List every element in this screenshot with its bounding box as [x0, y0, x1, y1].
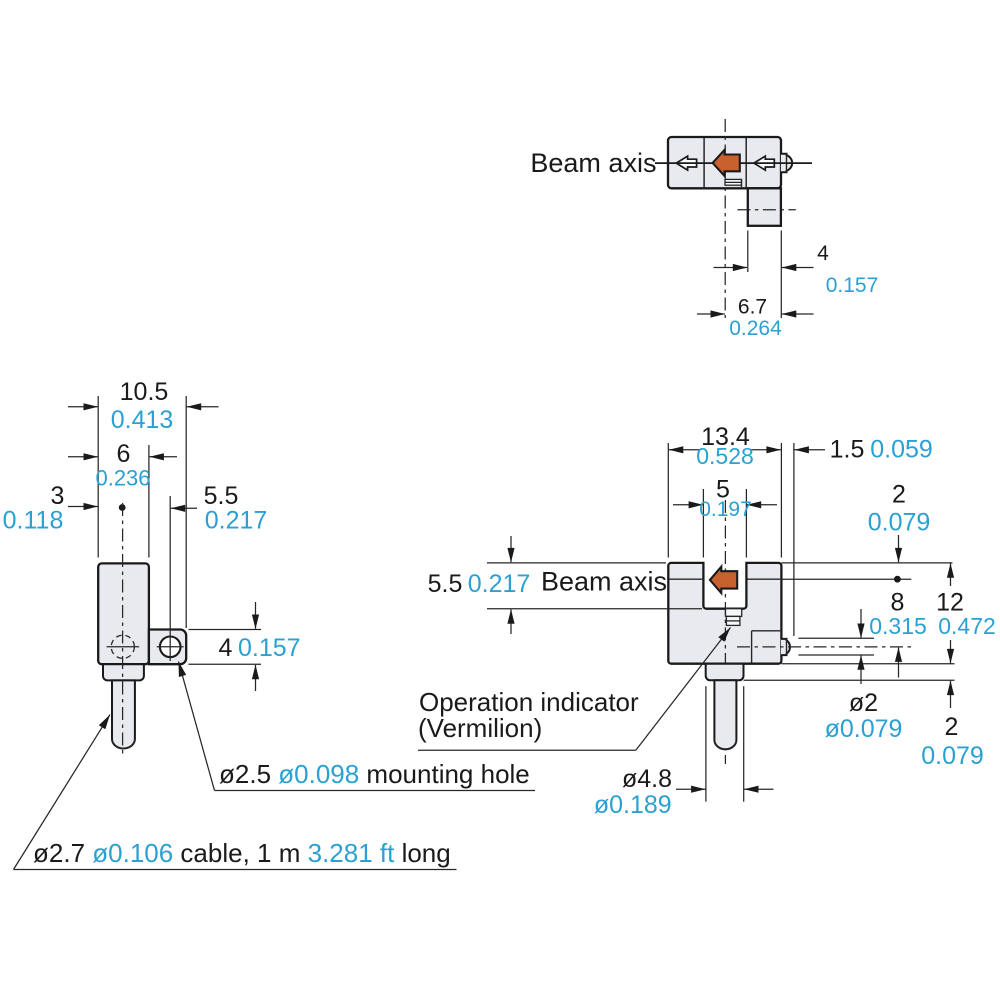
- front view: dimension 2 (0.079) bottom right step: [950, 681, 952, 708]
- front view: notch bottom line extended left: [487, 608, 702, 610]
- leader: cable label: [14, 715, 111, 870]
- svg-text:0.079: 0.079: [921, 742, 984, 770]
- svg-text:0.217: 0.217: [468, 570, 531, 598]
- front view: cable bushing: [706, 664, 744, 681]
- top view: orange beam direction arrow: [713, 150, 740, 176]
- svg-text:10.5: 10.5: [120, 378, 169, 406]
- svg-text:0.315: 0.315: [869, 613, 927, 639]
- svg-text:2: 2: [945, 713, 959, 741]
- svg-text:ø0.189: ø0.189: [594, 791, 672, 819]
- left view: dimension 6 (0.236): [68, 456, 98, 458]
- front view: dimension 1.5 (0.059): [794, 449, 825, 451]
- front view: dimension 2 (0.079) top right: [898, 535, 900, 562]
- leader: operation indicator label: [636, 628, 731, 751]
- left view: cable bushing: [103, 664, 144, 680]
- svg-text:ø2.7 ø0.106 cable, 1 m 3.281 f: ø2.7 ø0.106 cable, 1 m 3.281 ft long: [33, 838, 451, 868]
- front view: connector diameter extent lines: [798, 637, 874, 639]
- front view: connector axis dash-dot line: [737, 646, 911, 648]
- front view: beam axis line to the right with reference dot: [781, 578, 911, 580]
- front view: orange beam direction arrow: [710, 567, 737, 593]
- left view: extension line bracket right edge: [185, 396, 187, 628]
- left view: extension line body right edge: [148, 445, 150, 558]
- svg-text:5.5: 5.5: [428, 570, 463, 598]
- front view: body bottom edge extended right: [781, 663, 954, 665]
- left view: vertical dash-dot centerline: [122, 503, 124, 757]
- left view: hidden lens circle (dashed): [111, 635, 134, 658]
- svg-text:6.7: 6.7: [738, 295, 767, 318]
- front view: body top edge extended right: [781, 562, 952, 564]
- front view: dimension 13.4 (0.528): [669, 449, 700, 451]
- svg-text:4: 4: [817, 242, 829, 265]
- front view: dimension 12 (0.472): [950, 563, 952, 586]
- front view: dimension o2 (o0.079) connector dia: [860, 609, 862, 638]
- svg-text:2: 2: [892, 480, 906, 508]
- left view: dimension 4 (0.157) bracket height: [189, 629, 262, 631]
- top view: cable axis dash-dot line: [737, 209, 795, 211]
- svg-text:Beam axis: Beam axis: [541, 567, 667, 597]
- top view: beam axis line: [655, 162, 812, 164]
- svg-text:6: 6: [117, 440, 131, 468]
- front view: extension lines above body: [667, 443, 669, 558]
- front view: dimension o4.8 (o0.189) bushing dia: [676, 788, 705, 790]
- left view: cable: [112, 680, 135, 748]
- svg-text:0.472: 0.472: [938, 613, 996, 639]
- front view: step rectangle lower right: [751, 631, 753, 663]
- top view: extension line from body right edge: [780, 231, 782, 319]
- leader: mounting hole label: [179, 662, 215, 791]
- svg-text:ø0.079: ø0.079: [825, 715, 903, 743]
- top view: vertical centerline: [724, 119, 726, 318]
- svg-text:0.118: 0.118: [3, 507, 64, 535]
- top view: connector bump on right: [781, 154, 792, 172]
- front view: lens lines at beam level inside arms: [669, 578, 702, 580]
- svg-text:4: 4: [219, 634, 233, 662]
- svg-text:0.413: 0.413: [111, 406, 174, 434]
- top view: cable-side L extension block: [748, 188, 781, 226]
- top view: emitter white arrow (left): [676, 156, 696, 170]
- left view: mounting bracket tab: [149, 630, 186, 665]
- svg-text:1.5: 1.5: [830, 435, 865, 463]
- left view: dimension 3 (0.118) with beam axis dot: [68, 506, 98, 508]
- svg-text:0.157: 0.157: [826, 274, 879, 297]
- front view: U-shaped sensor body: [668, 563, 781, 664]
- left view: mounting hole circle: [160, 637, 181, 658]
- svg-text:0.264: 0.264: [729, 317, 782, 340]
- front view: dimension 5.5 (0.217) notch depth: [510, 536, 512, 562]
- svg-text:Beam axis: Beam axis: [530, 148, 656, 178]
- top view: body section divider lines: [703, 138, 705, 187]
- svg-text:ø2.5 ø0.098 mounting hole: ø2.5 ø0.098 mounting hole: [219, 759, 530, 789]
- front view: dimension 5 (0.197) notch width: [673, 504, 703, 506]
- left view: dimension 10.5 (0.413): [68, 406, 98, 408]
- svg-text:0.059: 0.059: [870, 435, 933, 463]
- front view: cable: [714, 680, 736, 749]
- top view: dimension 4 (0.157): [714, 267, 748, 269]
- top view: receiver white arrow (right): [754, 156, 774, 170]
- svg-text:(Vermilion): (Vermilion): [418, 713, 542, 743]
- top view: operation indicator seen from top: [725, 179, 742, 185]
- front view: vertical dashed centerline: [724, 500, 726, 764]
- front view: operation indicator below notch: [726, 609, 742, 617]
- left view: extension line mounting hole center: [169, 496, 171, 661]
- svg-text:0.157: 0.157: [238, 634, 301, 662]
- svg-text:ø2: ø2: [849, 689, 878, 717]
- svg-text:0.079: 0.079: [868, 508, 931, 536]
- front view: lines extending left at body top and notch bottom: [487, 562, 666, 564]
- left view: sensor body: [98, 563, 149, 664]
- top view: sensor body outline: [668, 137, 781, 188]
- front view: connector bump on right: [781, 639, 790, 655]
- front view: dimension 8 (0.315): [898, 648, 900, 678]
- top view: extension line from L block left edge: [747, 231, 749, 273]
- svg-text:0.236: 0.236: [95, 466, 150, 491]
- left view: dimension 5.5 (0.217): [171, 507, 197, 509]
- svg-text:ø4.8: ø4.8: [622, 765, 672, 793]
- left view: extension line left edge: [97, 396, 99, 558]
- svg-text:0.528: 0.528: [696, 443, 754, 469]
- front view: bushing diameter extension lines: [705, 686, 707, 802]
- svg-text:0.217: 0.217: [205, 507, 268, 535]
- front view: bushing bottom edge extended right: [744, 679, 955, 681]
- top view: dimension 6.7 (0.264): [697, 313, 725, 315]
